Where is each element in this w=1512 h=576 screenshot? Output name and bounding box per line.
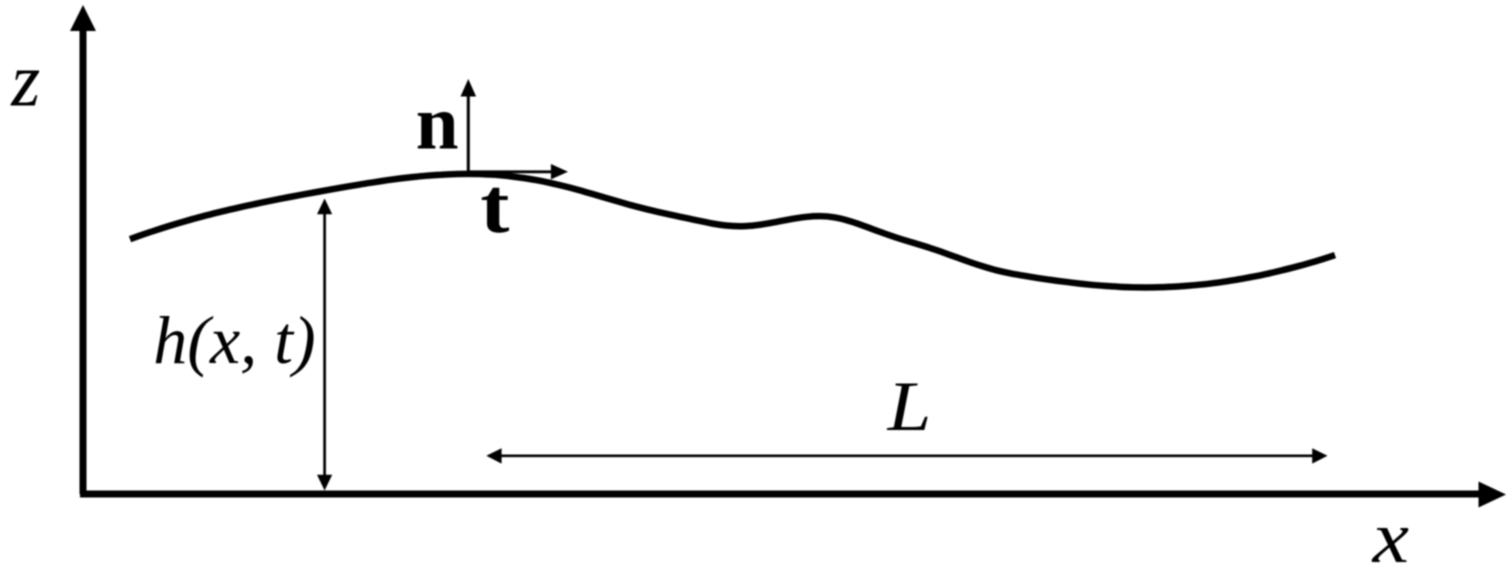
svg-text:n: n [416, 80, 459, 166]
svg-text:L: L [887, 368, 932, 446]
svg-text:z: z [10, 39, 40, 123]
svg-text:h(x, t): h(x, t) [153, 302, 315, 378]
svg-text:t: t [480, 162, 509, 249]
svg-text:x: x [1372, 497, 1410, 576]
